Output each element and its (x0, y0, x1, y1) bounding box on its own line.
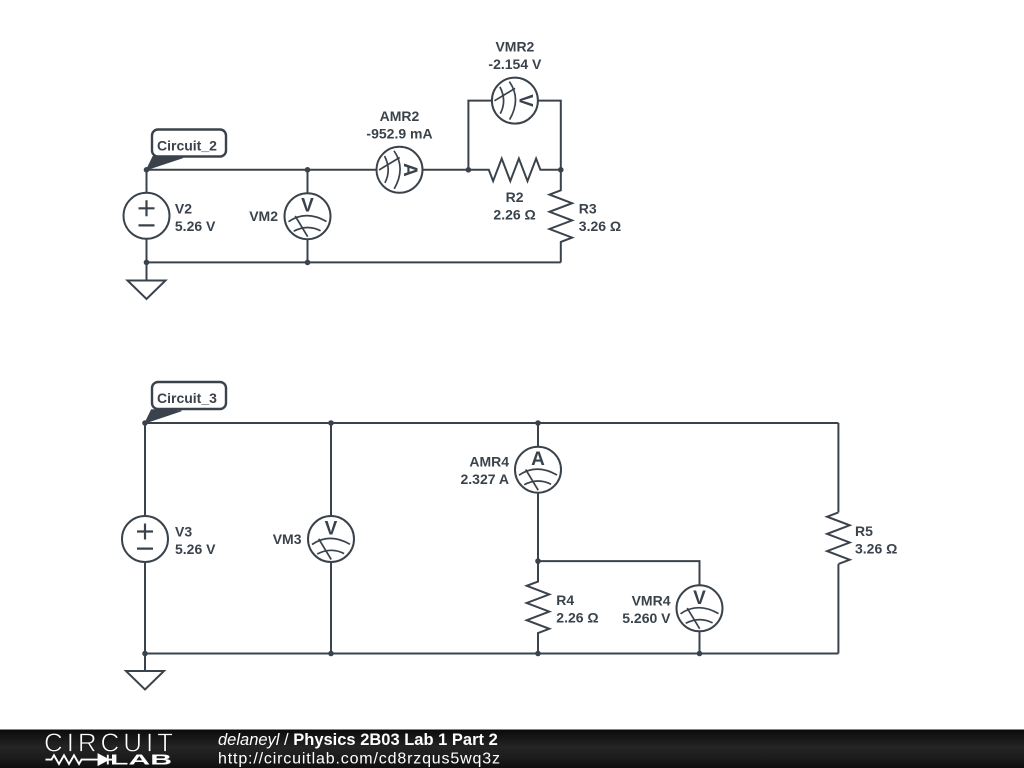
meter letter V of VMR2 (514, 94, 535, 107)
ammeter AMR2 (377, 147, 423, 193)
wire node to VMR4 (538, 561, 700, 585)
node flag Circuit_2 (147, 130, 227, 170)
label R3 value (579, 201, 621, 235)
svg-text:5.26 V: 5.26 V (175, 218, 216, 234)
ammeter AMR4 (515, 447, 561, 493)
ground circuit 2 (128, 262, 166, 299)
node dot top rail at VM2 (305, 167, 311, 173)
wire V2 top stub (146, 170, 148, 193)
svg-text:AMR2: AMR2 (380, 108, 420, 124)
svg-text:VMR2: VMR2 (495, 39, 534, 55)
node dot top rail at VM3 (328, 420, 334, 426)
wire V2 bottom stub (146, 239, 148, 263)
svg-text:VM3: VM3 (273, 531, 302, 547)
wire AMR4 to R4 node (537, 493, 539, 561)
svg-text:2.327 A: 2.327 A (460, 471, 509, 487)
svg-text:R4: R4 (556, 592, 574, 608)
wire top rail circuit 3 (145, 422, 838, 424)
node dot bottom rail at VMR4 (697, 651, 703, 657)
svg-text:5.26 V: 5.26 V (175, 541, 216, 557)
wire VM2 top stub (307, 170, 309, 193)
wire R5 bottom lead (837, 564, 839, 653)
svg-text:LAB: LAB (110, 752, 172, 768)
voltmeter VMR4 (677, 585, 723, 631)
node dot R2 left junction (466, 167, 472, 173)
wire VM3 top stub (330, 423, 332, 516)
svg-text:http://circuitlab.com/cd8rzqus: http://circuitlab.com/cd8rzqus5wq3z (218, 751, 500, 768)
node flag Circuit_3 (145, 382, 226, 423)
svg-text:3.26 Ω: 3.26 Ω (855, 540, 897, 556)
node dot bottom rail at V2 (144, 260, 150, 266)
node dot bottom rail at VM3 (328, 651, 334, 657)
wire AMR4 top stub (537, 423, 539, 447)
CircuitLab logo resistor-diode glyph (46, 755, 116, 765)
resistor R5 (827, 512, 850, 564)
wire VM3 bottom stub (330, 562, 332, 654)
wire top main left (147, 169, 377, 171)
label R5 value (855, 523, 897, 557)
wire AMR2 to node (423, 169, 469, 171)
svg-text:2.26 Ω: 2.26 Ω (556, 610, 598, 626)
wire bottom rail circuit 3 (145, 653, 838, 655)
label R2 value (493, 189, 535, 223)
label VMR4 value (622, 592, 671, 626)
voltmeter VM2 (285, 193, 331, 239)
svg-text:A: A (399, 163, 420, 177)
svg-text:2.26 Ω: 2.26 Ω (493, 206, 535, 222)
voltage source V2 (124, 193, 170, 239)
svg-text:R5: R5 (855, 523, 873, 539)
svg-text:Circuit_3: Circuit_3 (157, 390, 217, 406)
wire VM2 bottom stub (307, 239, 309, 262)
node dot bottom rail at R4 (535, 651, 541, 657)
label V3 value (175, 524, 216, 558)
svg-text:5.260 V: 5.260 V (622, 610, 671, 626)
node dot bottom rail at VM2 (305, 260, 311, 266)
wire V3 top stub (144, 423, 146, 516)
resistor R2 (468, 159, 560, 182)
svg-text:V2: V2 (175, 200, 192, 216)
wire VMR2 loop left (468, 101, 492, 170)
svg-text:-952.9 mA: -952.9 mA (366, 126, 432, 142)
svg-text:V: V (325, 519, 338, 540)
wire VMR2 loop right (538, 101, 561, 170)
node dot bottom rail at V3 (142, 651, 148, 657)
svg-text:3.26 Ω: 3.26 Ω (579, 218, 621, 234)
node dot AMR4-R4 junction (535, 558, 541, 564)
voltmeter VMR2 (492, 78, 538, 124)
node dot R2 right junction (558, 167, 564, 173)
svg-text:V: V (693, 588, 706, 609)
svg-text:V: V (514, 94, 535, 107)
wire V3 bottom stub (144, 562, 146, 654)
svg-text:delaneyl / Physics 2B03 Lab 1: delaneyl / Physics 2B03 Lab 1 Part 2 (218, 731, 498, 749)
svg-text:-2.154 V: -2.154 V (488, 56, 542, 72)
resistor R4 (527, 561, 550, 653)
meter letter A of AMR2 (399, 163, 420, 177)
voltmeter VM3 (308, 516, 354, 562)
node dot top rail at V3 (142, 420, 148, 426)
svg-text:V: V (301, 196, 314, 217)
ground circuit 3 (126, 654, 164, 690)
resistor R3 (550, 170, 573, 263)
wire R5 right side top lead (837, 423, 839, 512)
svg-text:AMR4: AMR4 (469, 454, 509, 470)
svg-text:VMR4: VMR4 (632, 592, 671, 608)
label VMR2 value (488, 39, 542, 73)
svg-text:R3: R3 (579, 201, 597, 217)
node dot top rail at V2 (144, 167, 150, 173)
node dots (142, 167, 702, 656)
label V2 value (175, 200, 216, 234)
wire VMR4 bottom stub (699, 631, 701, 653)
voltage source V3 (122, 516, 168, 562)
svg-text:Circuit_2: Circuit_2 (157, 137, 217, 153)
svg-text:VM2: VM2 (249, 208, 278, 224)
svg-text:R2: R2 (506, 189, 524, 205)
label R4 value (556, 592, 598, 626)
wire bottom rail circuit 2 (147, 261, 561, 263)
svg-text:V3: V3 (175, 524, 192, 540)
label AMR2 value (366, 108, 432, 142)
label AMR4 value (460, 454, 509, 488)
svg-text:A: A (531, 449, 545, 470)
node dot top rail at AMR4 (535, 420, 541, 426)
